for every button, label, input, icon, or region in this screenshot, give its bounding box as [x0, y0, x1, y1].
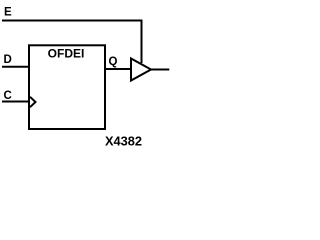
svg-text:Q: Q — [109, 56, 118, 68]
svg-text:E: E — [4, 7, 12, 19]
flip-flop body U1 OFDEI — [29, 45, 105, 129]
clock input caret — [30, 97, 36, 107]
wire Q to buffer input — [105, 68, 131, 70]
wire buffer output — [151, 69, 169, 71]
wire C input — [2, 101, 30, 103]
svg-text:OFDEI: OFDEI — [48, 47, 85, 61]
svg-text:X4382: X4382 — [105, 134, 142, 149]
wire E horizontal — [2, 20, 143, 22]
svg-text:D: D — [4, 54, 12, 66]
output buffer U2 (tristate, enable E) — [131, 59, 151, 81]
wire D input — [2, 66, 30, 68]
wire E vertical drop to buffer enable pin — [141, 20, 143, 64]
svg-text:C: C — [4, 90, 12, 102]
